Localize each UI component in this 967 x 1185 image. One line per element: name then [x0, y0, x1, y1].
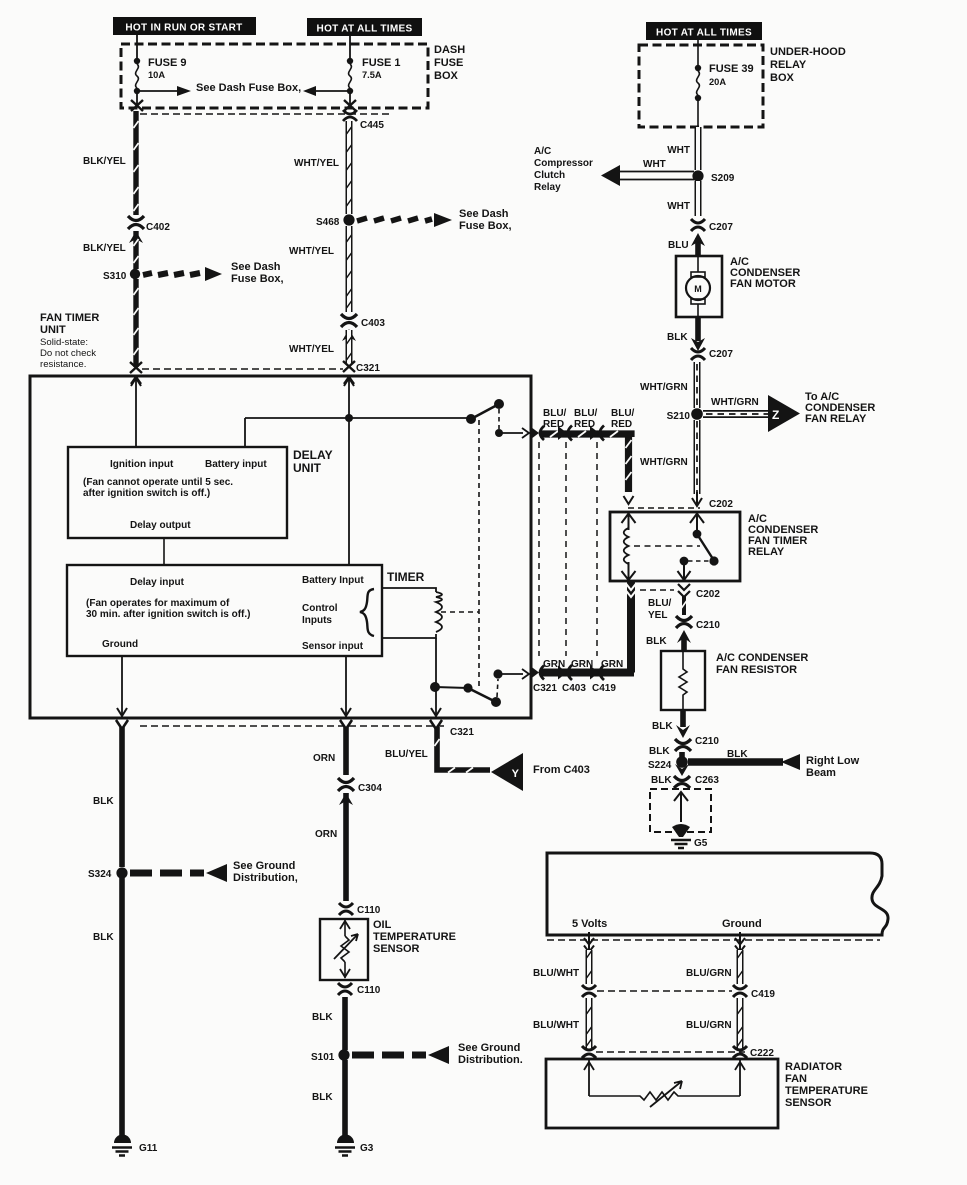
switch SW1 arm: [471, 404, 499, 419]
connector dashed line C445: [140, 113, 390, 115]
svg-text:FUSE 39: FUSE 39: [709, 63, 754, 75]
svg-text:See Dash: See Dash: [231, 261, 281, 273]
svg-text:FAN RESISTOR: FAN RESISTOR: [716, 664, 797, 676]
dashed link coil to control line: [441, 611, 479, 613]
wire BLK (C210 to resistor): [681, 638, 687, 651]
oil temperature sensor box: [320, 919, 368, 980]
svg-text:RELAY: RELAY: [770, 59, 807, 71]
connector C304: [338, 778, 354, 791]
svg-text:C263: C263: [695, 775, 719, 786]
sensor thermistor R2: [589, 1081, 740, 1107]
splice S310: [130, 269, 140, 279]
label UNDER-HOOD RELAY BOX: [770, 46, 846, 84]
dashed arrow from S324 to See Ground Distribution: [130, 864, 227, 882]
splice S468: [343, 214, 354, 225]
wire fuse39 top lead: [697, 40, 699, 66]
splice S209: [692, 170, 703, 181]
svg-text:FAN TIMER: FAN TIMER: [40, 312, 99, 324]
wire BLU/YEL (relay to C210): [682, 596, 687, 615]
svg-text:C202: C202: [709, 499, 733, 510]
terminal chevron right of box (y673): [531, 666, 544, 680]
resistor R1 symbol: [679, 652, 687, 709]
svg-text:A/C CONDENSER: A/C CONDENSER: [716, 652, 808, 664]
wire WHT/GRN (S210 to Z, outlined dashed): [703, 410, 768, 418]
svg-text:Relay: Relay: [534, 182, 561, 193]
label See Ground Distribution, (S324): [233, 860, 298, 884]
splice S324: [116, 867, 127, 878]
svg-text:C419: C419: [592, 683, 616, 694]
labels C321 C403 C419: [533, 683, 616, 694]
wire ignition input (inside, x136): [135, 377, 137, 447]
outline arrow to A/C Compressor Clutch Relay: [601, 165, 694, 186]
svg-text:ORN: ORN: [313, 753, 335, 764]
pin arrow down (S210 wire into C202): [692, 492, 702, 506]
svg-text:BLK: BLK: [727, 749, 748, 760]
svg-text:TEMPERATURE: TEMPERATURE: [373, 931, 456, 943]
terminal chevron below box (x346): [340, 720, 352, 729]
dashed arrow from S310 to See Dash Fuse Box: [143, 267, 222, 281]
connector chevrons on bundle (C321 C403 C419): [558, 426, 604, 441]
wire WHT (S209 to C207, outlined): [695, 181, 702, 216]
terminal chevron below box (x122): [116, 720, 128, 729]
connector C207 (lower): [691, 348, 705, 360]
svg-text:ORN: ORN: [315, 829, 337, 840]
svg-text:BLU/YEL: BLU/YEL: [385, 749, 428, 760]
svg-text:Clutch: Clutch: [534, 170, 565, 181]
connector C207: [691, 219, 705, 231]
svg-text:Do not check: Do not check: [40, 348, 96, 359]
svg-text:C403: C403: [361, 318, 385, 329]
relay switch arm: [697, 534, 713, 559]
svg-text:C207: C207: [709, 349, 733, 360]
terminal chevron right of box (y433): [531, 426, 544, 440]
label BLU/ YEL: [648, 598, 672, 621]
svg-text:Distribution,: Distribution,: [233, 872, 298, 884]
svg-text:G3: G3: [360, 1143, 374, 1154]
label FUSE 1 7.5A: [362, 57, 401, 80]
svg-text:BLK/YEL: BLK/YEL: [83, 156, 126, 167]
pin arrow down at bottom border (x436): [431, 708, 441, 716]
motor M1 symbol: [686, 257, 710, 316]
connector alignment dashed lines: [538, 442, 540, 656]
wire BLK (resistor to C210): [680, 710, 686, 727]
svg-text:Battery input: Battery input: [205, 459, 267, 470]
wire WHT (box to S209, outlined): [695, 127, 702, 170]
svg-text:Solid-state:: Solid-state:: [40, 337, 88, 348]
A/C condenser fan timer relay box: [610, 512, 740, 581]
svg-text:C210: C210: [695, 736, 719, 747]
svg-text:Delay output: Delay output: [130, 520, 191, 531]
svg-text:WHT/YEL: WHT/YEL: [289, 344, 334, 355]
svg-text:Right Low: Right Low: [806, 755, 860, 767]
fan timer unit box: [30, 376, 531, 718]
wire BLK (S324 to G11): [119, 878, 125, 1140]
relay coil pin arrows: [622, 513, 636, 530]
svg-text:C222: C222: [750, 1048, 774, 1059]
wire BLU/GRN (module to C419): [738, 950, 743, 984]
svg-text:OIL: OIL: [373, 919, 392, 931]
wire output to right edge with arrow: [499, 428, 529, 438]
wire BLU/YEL elbow to Y: [435, 727, 491, 773]
svg-text:RELAY: RELAY: [748, 546, 785, 558]
wire delay output to timer: [163, 538, 165, 565]
wire fuse1 arrow to See Dash Fuse Box: [303, 86, 350, 96]
svg-text:See Ground: See Ground: [233, 860, 295, 872]
connector chevrons on GRN bundle: [558, 665, 604, 680]
radiator fan temperature sensor box: [546, 1059, 778, 1128]
dashed link sw2 tip to output node: [497, 679, 498, 697]
wire fuse1 top lead: [349, 36, 351, 59]
svg-text:5 Volts: 5 Volts: [572, 918, 607, 930]
node sensor output: [493, 669, 502, 678]
svg-text:BOX: BOX: [770, 72, 795, 84]
svg-text:C403: C403: [562, 683, 586, 694]
wire BLU/WHT (C419 to C222): [587, 998, 592, 1048]
wire into G5 with up arrow: [674, 792, 688, 822]
svg-text:C321: C321: [533, 683, 557, 694]
svg-text:S224: S224: [648, 760, 672, 771]
svg-text:BLK: BLK: [651, 775, 672, 786]
svg-text:S209: S209: [711, 173, 735, 184]
svg-text:BOX: BOX: [434, 70, 459, 82]
svg-text:GRN: GRN: [543, 659, 565, 670]
dashed arrow from S468 to See Dash Fuse Box: [357, 213, 452, 227]
relay output pin: [678, 561, 691, 580]
pin arrow down at bottom border (x346): [341, 708, 351, 716]
svg-text:GRN: GRN: [601, 659, 623, 670]
svg-text:WHT/GRN: WHT/GRN: [640, 382, 688, 393]
svg-text:SENSOR: SENSOR: [373, 943, 420, 955]
connector C210 (lower): [676, 725, 690, 738]
svg-text:FUSE: FUSE: [434, 57, 463, 69]
dashed link arm to fixed contact: [688, 560, 710, 562]
svg-text:(Fan operates for maximum of: (Fan operates for maximum of: [86, 598, 230, 609]
wire fuse9 arrow to See Dash Fuse Box: [137, 86, 191, 96]
svg-text:GRN: GRN: [571, 659, 593, 670]
terminal arrows right wire into unit: [343, 361, 355, 384]
svg-text:SENSOR: SENSOR: [785, 1097, 832, 1109]
wire battery vertical (x349): [348, 377, 350, 565]
svg-text:S324: S324: [88, 869, 112, 880]
svg-text:BLU: BLU: [668, 240, 689, 251]
sensor internals (thermistor): [334, 920, 358, 978]
svg-text:Sensor input: Sensor input: [302, 641, 364, 652]
wire WHT/GRN (S210 to C202, outlined dashed): [694, 420, 701, 494]
wire BLU/WHT (module to C419): [587, 950, 592, 984]
wire BLU with up arrow: [691, 233, 705, 256]
label (Fan cannot operate until 5 sec. after ignition switch is off.): [83, 477, 233, 499]
wire BLU/GRN (C419 to C222): [738, 998, 743, 1048]
connector dashed line C222: [596, 1051, 745, 1053]
wire BLK/YEL segment C: [133, 279, 138, 367]
svg-text:WHT: WHT: [667, 145, 690, 156]
svg-text:S310: S310: [103, 271, 127, 282]
label Control Inputs: [302, 603, 338, 626]
fuse F39 symbol: [695, 65, 701, 101]
svg-text:WHT/GRN: WHT/GRN: [711, 397, 759, 408]
svg-text:C110: C110: [357, 985, 381, 996]
wire notch marks on GRN riser: [626, 583, 637, 597]
label A/C CONDENSER FAN TIMER RELAY: [748, 513, 818, 558]
svg-text:FUSE 1: FUSE 1: [362, 57, 401, 69]
wire fuse9 bottom lead: [136, 91, 138, 104]
svg-text:See Ground: See Ground: [458, 1042, 520, 1054]
svg-text:FAN RELAY: FAN RELAY: [805, 413, 867, 425]
svg-text:S101: S101: [311, 1052, 335, 1063]
svg-text:7.5A: 7.5A: [362, 70, 382, 80]
A/C condenser fan motor box: [676, 256, 722, 317]
svg-text:Inputs: Inputs: [302, 615, 332, 626]
relay fixed contact: [680, 557, 689, 566]
dashed link sw1 to output node: [498, 409, 500, 429]
relay dashed actuation line: [634, 545, 700, 547]
svg-text:Beam: Beam: [806, 767, 836, 779]
svg-text:FUSE 9: FUSE 9: [148, 57, 187, 69]
svg-text:WHT/YEL: WHT/YEL: [294, 158, 339, 169]
svg-text:after ignition switch is off.): after ignition switch is off.): [83, 488, 210, 499]
svg-text:C210: C210: [696, 620, 720, 631]
node switch2 junction: [430, 682, 440, 692]
svg-text:TEMPERATURE: TEMPERATURE: [785, 1085, 868, 1097]
splice S210: [691, 408, 703, 420]
connector C222 chevrons: [582, 1046, 596, 1058]
svg-text:BLU/WHT: BLU/WHT: [533, 968, 579, 979]
svg-text:Distribution.: Distribution.: [458, 1054, 523, 1066]
connector C419 chevrons: [582, 985, 596, 997]
wire BLK (to S324): [119, 727, 125, 867]
svg-text:A/C: A/C: [534, 146, 551, 157]
wire switch2 junction down (x436): [435, 687, 437, 716]
wire GRN bundle (relay to unit): [540, 580, 634, 673]
label Right Low Beam: [806, 755, 860, 779]
pin arrows at module bottom: [584, 932, 594, 952]
pin arrow down at bottom border (x122): [117, 708, 127, 716]
svg-text:WHT/GRN: WHT/GRN: [640, 457, 688, 468]
svg-text:BLK: BLK: [312, 1012, 333, 1023]
wire BLK/YEL segment B: [133, 231, 138, 269]
svg-text:Fuse Box,: Fuse Box,: [231, 273, 284, 285]
wire BLK/YEL segment A: [133, 111, 138, 215]
wire timer ground down (x122): [121, 656, 123, 716]
connector C210: [676, 616, 692, 628]
svg-text:M: M: [694, 284, 702, 294]
svg-text:YEL: YEL: [648, 610, 667, 621]
wire ORN (to C304): [343, 727, 349, 775]
svg-text:RED: RED: [543, 419, 564, 430]
wire coil bottom down to switch2: [435, 638, 437, 687]
label A/C Compressor Clutch Relay: [534, 146, 593, 193]
dashed arrow from S101 to See Ground Distribution: [352, 1046, 449, 1064]
svg-text:Delay input: Delay input: [130, 577, 185, 588]
terminal X at dash fuse box exit (left): [131, 100, 143, 111]
ground G3: [335, 1135, 355, 1156]
connector C403: [341, 314, 357, 327]
terminal X at dash fuse box exit (right): [344, 100, 356, 111]
svg-text:FAN: FAN: [785, 1073, 807, 1085]
svg-text:BLK: BLK: [667, 332, 688, 343]
dash fuse box (dashed): [121, 44, 428, 108]
svg-text:(Fan cannot operate until 5 se: (Fan cannot operate until 5 sec.: [83, 477, 233, 488]
svg-text:TIMER: TIMER: [387, 570, 425, 584]
svg-text:BLU/WHT: BLU/WHT: [533, 1020, 579, 1031]
pin arrow down (bundle into C202): [624, 496, 634, 504]
svg-text:BLK: BLK: [312, 1092, 333, 1103]
label FUSE 39 20A: [709, 63, 754, 87]
ground G11: [112, 1135, 132, 1156]
splice S101: [338, 1049, 349, 1060]
wire sensor down (x346): [345, 656, 347, 716]
timer coil wires: [382, 588, 436, 638]
label A/C CONDENSER FAN RESISTOR: [716, 652, 808, 676]
terminal chevron below box (x436) + C321: [430, 720, 442, 729]
svg-text:UNIT: UNIT: [293, 461, 322, 475]
svg-text:BLU/: BLU/: [611, 408, 635, 419]
svg-text:See Dash Fuse Box,: See Dash Fuse Box,: [196, 82, 301, 94]
svg-text:BLK: BLK: [93, 796, 114, 807]
header HOT IN RUN OR START: [113, 17, 256, 35]
connector dashed line below module: [547, 939, 880, 941]
svg-text:C445: C445: [360, 120, 384, 131]
svg-text:BLK: BLK: [649, 746, 670, 757]
svg-text:C419: C419: [751, 989, 775, 1000]
svg-text:30 min. after ignition switch: 30 min. after ignition switch is off.): [86, 609, 250, 620]
label OIL TEMPERATURE SENSOR: [373, 919, 456, 955]
svg-text:C402: C402: [146, 222, 170, 233]
pin arrow up at top border (x349): [344, 378, 354, 386]
node delay output to BLU/RED: [495, 429, 503, 437]
wire battery horizontal (y418): [245, 418, 471, 447]
wire sensor output to right edge with arrow: [498, 669, 529, 679]
svg-text:20A: 20A: [709, 77, 726, 87]
svg-text:Fuse Box,: Fuse Box,: [459, 220, 512, 232]
connector dashed line C321 (below unit box): [140, 725, 447, 727]
labels GRN x3: [543, 659, 623, 670]
ground G5 symbol: [671, 824, 691, 848]
svg-text:Battery Input: Battery Input: [302, 575, 364, 586]
svg-text:BLU/: BLU/: [543, 408, 567, 419]
under-hood relay box (dashed): [639, 45, 763, 127]
connector dashed line C202: [628, 507, 700, 509]
svg-text:Control: Control: [302, 603, 338, 614]
timer sub-box: [67, 565, 382, 656]
svg-text:G11: G11: [139, 1143, 158, 1154]
svg-text:FAN MOTOR: FAN MOTOR: [730, 278, 796, 290]
wire WHT/GRN (C207 to S210, outlined dashed): [694, 362, 701, 408]
svg-text:DASH: DASH: [434, 44, 465, 56]
ground box G5 (dashed): [650, 789, 711, 832]
sensor pins with up arrows: [584, 1060, 594, 1096]
label A/C CONDENSER FAN MOTOR: [730, 256, 800, 290]
svg-text:BLK: BLK: [93, 932, 114, 943]
svg-text:S210: S210: [667, 411, 691, 422]
label To A/C CONDENSER FAN RELAY: [805, 391, 875, 425]
header HOT AT ALL TIMES (right): [646, 22, 762, 40]
svg-text:RED: RED: [611, 419, 632, 430]
svg-text:G5: G5: [694, 838, 708, 849]
svg-text:WHT: WHT: [643, 159, 666, 170]
svg-text:C110: C110: [357, 905, 381, 916]
svg-text:UNDER-HOOD: UNDER-HOOD: [770, 46, 846, 58]
wire WHT/YEL segment C: [347, 330, 352, 365]
wire fuse1 bottom lead: [349, 91, 351, 104]
svg-text:HOT AT ALL TIMES: HOT AT ALL TIMES: [317, 24, 413, 35]
wire fuse9 top lead: [136, 35, 138, 59]
svg-text:BLK: BLK: [646, 636, 667, 647]
connector C445 symbol: [343, 110, 357, 121]
splice S224: [676, 756, 688, 768]
A/C condenser fan resistor box: [661, 651, 705, 710]
label See Ground Distribution. (S101): [458, 1042, 523, 1066]
dashed control line vertical (x479): [478, 420, 480, 688]
svg-text:S468: S468: [316, 217, 340, 228]
wire ORN (C304 to C110): [343, 793, 349, 901]
svg-text:BLU/: BLU/: [574, 408, 598, 419]
wire BLU/RED bundle horizontal: [540, 431, 632, 492]
svg-text:resistance.: resistance.: [40, 359, 86, 370]
header HOT AT ALL TIMES (left): [307, 18, 422, 36]
control module box (torn right edge): [547, 853, 888, 935]
label DASH FUSE BOX: [434, 44, 465, 82]
label FAN TIMER UNIT: [40, 312, 99, 370]
svg-text:WHT/YEL: WHT/YEL: [289, 246, 334, 257]
wire fuse39 bottom lead: [697, 98, 699, 127]
relay coil: [624, 528, 629, 564]
fuse F1 symbol: [347, 58, 353, 94]
svg-text:BLU/: BLU/: [648, 598, 672, 609]
svg-text:RED: RED: [574, 419, 595, 430]
label FUSE 9 10A: [148, 57, 187, 80]
svg-text:C304: C304: [358, 783, 382, 794]
wire BLK (C110 to S101): [342, 997, 348, 1050]
connector C402: [128, 216, 144, 229]
connector dashed line C419: [597, 990, 732, 992]
terminal chevrons below relay (C202): [678, 584, 690, 597]
brace for control inputs: [360, 589, 374, 636]
switch SW2 arm: [468, 688, 496, 702]
wire WHT/YEL segment B: [347, 226, 352, 312]
svg-text:DELAY: DELAY: [293, 448, 333, 462]
label (Fan operates for maximum of 30 min. after ignition switch is off.): [86, 598, 250, 620]
connector C110: [339, 903, 353, 915]
svg-text:From C403: From C403: [533, 764, 590, 776]
labels BLU/RED x3: [543, 408, 635, 430]
label DELAY UNIT: [293, 448, 333, 475]
connector C110 (lower): [338, 983, 352, 995]
svg-text:UNIT: UNIT: [40, 324, 66, 336]
svg-text:10A: 10A: [148, 70, 165, 80]
svg-text:Ignition input: Ignition input: [110, 459, 174, 470]
wire BLK (C210 to S224): [679, 752, 685, 757]
svg-text:Ground: Ground: [722, 918, 762, 930]
fuse F9 symbol: [134, 58, 140, 94]
delay unit sub-box: [68, 447, 287, 538]
svg-text:RADIATOR: RADIATOR: [785, 1061, 842, 1073]
connector dashed line C202 (lower): [640, 589, 674, 591]
svg-text:BLU/GRN: BLU/GRN: [686, 968, 732, 979]
svg-text:C202: C202: [696, 589, 720, 600]
wire BLK to Right Low Beam with arrow: [688, 754, 800, 770]
node switch1 common: [466, 414, 476, 424]
svg-text:BLU/GRN: BLU/GRN: [686, 1020, 732, 1031]
label RADIATOR FAN TEMPERATURE SENSOR: [785, 1061, 868, 1109]
wire junction to switch2 pivot: [435, 687, 468, 688]
svg-text:Ground: Ground: [102, 639, 138, 650]
label See Dash Fuse Box, (S310): [231, 261, 284, 285]
node battery junction: [345, 414, 353, 422]
relay switch contact top: [693, 530, 702, 539]
svg-text:C321: C321: [356, 363, 380, 374]
pin arrow up at top border (x136): [131, 378, 141, 386]
